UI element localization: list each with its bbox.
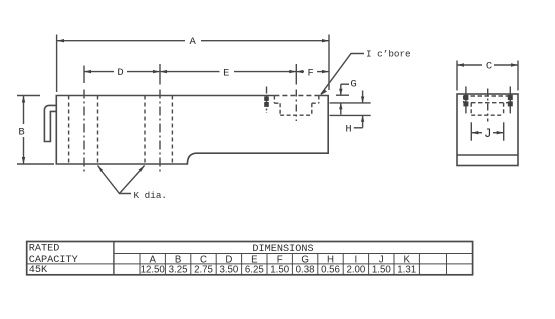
svg-text:C: C [486,61,492,73]
B arrows [22,96,25,103]
svg-text:H: H [345,123,351,135]
D arrows [84,70,91,73]
hole 2 hidden walls (K dia) [144,96,146,165]
svg-text:D: D [117,67,123,79]
svg-text:2.75: 2.75 [194,265,213,276]
J arrows [471,131,478,134]
svg-text:DIMENSIONS: DIMENSIONS [252,244,313,255]
svg-text:12.50: 12.50 [141,265,166,276]
dimension B line [23,96,25,125]
counterbore center line [295,90,297,122]
svg-text:E: E [223,67,229,79]
I c'bore leader arrowhead [320,89,327,95]
cable conduit on left [44,105,56,141]
svg-text:1.50: 1.50 [372,265,391,276]
E arrows [289,70,296,73]
end view counterbore hidden lines [464,95,511,97]
dimension labels [18,36,492,201]
dimension J ticks and lines [470,122,472,140]
svg-text:0.38: 0.38 [296,265,315,276]
G depth extension lines [336,94,349,96]
svg-text:1.31: 1.31 [397,265,416,276]
end view center line [487,89,489,122]
svg-text:F: F [308,68,314,80]
dimension G arrows stems [340,84,342,95]
svg-text:G: G [350,79,356,91]
retaining pin (side view) body [264,97,269,101]
arrowheads [22,39,518,172]
dimension D/E/F extension ticks [83,66,85,84]
G arrows [339,89,342,95]
left pin (end view) body [463,95,468,100]
right pin (end view) body [508,95,513,100]
svg-text:I c’bore: I c’bore [366,49,411,60]
F arrows [296,70,303,73]
side view body outline [56,96,328,165]
H depth extension line [330,114,371,116]
counterbore hidden outline (side view) [273,96,275,104]
C arrows [457,63,464,66]
table text [29,243,416,276]
svg-text:45K: 45K [29,265,48,276]
dimension D line [84,71,114,73]
svg-text:RATED: RATED [29,243,60,254]
svg-text:3.25: 3.25 [169,265,188,276]
end view step edge [457,154,518,156]
svg-text:0.56: 0.56 [321,265,340,276]
dimension H arrows stems [362,91,364,103]
end view body outline [457,94,518,166]
A arrows [57,39,64,42]
table row lines [114,253,473,255]
svg-text:6.25: 6.25 [245,265,264,276]
hole 2 center line [159,90,161,172]
svg-text:2.00: 2.00 [346,265,365,276]
svg-text:3.50: 3.50 [219,265,238,276]
retaining pin (side view) center line [266,87,268,114]
dimension B extension lines [17,95,40,97]
side view top edge dashed across counterbore opening [274,95,318,97]
H arrows [361,97,364,103]
dimension F line [296,71,304,73]
dimension A extension lines [56,35,58,93]
dimension C extension lines [456,61,458,91]
svg-text:A: A [189,36,196,48]
table verticals [113,242,115,275]
dimension A line [57,40,185,42]
K dia leader arrows [98,166,132,194]
dimension C line [457,64,482,66]
dimension E line [160,71,220,73]
end view pin center lines [465,86,467,113]
svg-text:K dia.: K dia. [134,190,167,201]
table outer border [27,242,473,275]
svg-text:1.50: 1.50 [270,265,289,276]
hole 1 center line [83,90,85,172]
dimension table [27,242,473,275]
hole 1 hidden walls (K dia) [68,96,70,165]
I c'bore leader line [321,54,364,95]
svg-text:J: J [484,127,492,141]
svg-text:B: B [18,127,24,139]
K dia arrowheads [98,166,104,173]
